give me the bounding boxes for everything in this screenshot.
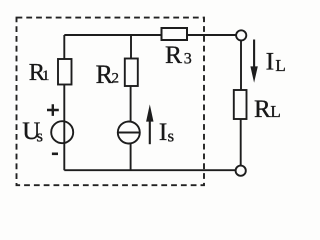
resistor R3 (in top wire) xyxy=(162,28,188,40)
wire: top node down to RL xyxy=(240,41,242,91)
wire: R1 branch top segment xyxy=(63,35,65,59)
current source I_s (circle with horizontal bar) xyxy=(118,122,140,144)
wire: R1 box through source to bottom wire xyxy=(63,85,65,171)
minus sign of U_s xyxy=(52,153,58,156)
resistor R2 xyxy=(125,59,138,87)
svg-text:1: 1 xyxy=(42,68,50,84)
svg-text:2: 2 xyxy=(112,71,120,87)
node: top-right terminal xyxy=(236,30,246,40)
resistor RL xyxy=(234,90,247,119)
resistor R1 xyxy=(58,59,72,85)
voltage source U_s (circle, wire passes through) xyxy=(51,121,73,143)
svg-text:L: L xyxy=(270,102,280,121)
svg-text:s: s xyxy=(36,126,43,145)
svg-text:3: 3 xyxy=(184,50,192,67)
wire: R2 branch top segment xyxy=(130,35,132,59)
node: bottom-right terminal xyxy=(236,166,246,176)
svg-text:s: s xyxy=(168,126,175,145)
svg-text:R: R xyxy=(165,40,182,69)
wire: top horizontal from R1 branch to right node xyxy=(64,34,236,36)
wire: current source to bottom wire xyxy=(130,143,132,170)
wire: R2 box to current source xyxy=(130,86,132,122)
plus sign of U_s xyxy=(47,104,59,116)
arrow of I_s (pointing up) xyxy=(149,120,151,144)
svg-text:R: R xyxy=(254,96,271,123)
wire: bottom horizontal xyxy=(64,169,235,171)
arrow of I_L (pointing down) xyxy=(253,40,255,69)
wire: RL to bottom node xyxy=(240,119,242,166)
enclosing dashed box of the two-terminal network xyxy=(17,18,205,186)
svg-text:I: I xyxy=(159,118,167,146)
svg-text:L: L xyxy=(275,56,285,75)
svg-text:I: I xyxy=(266,47,275,76)
